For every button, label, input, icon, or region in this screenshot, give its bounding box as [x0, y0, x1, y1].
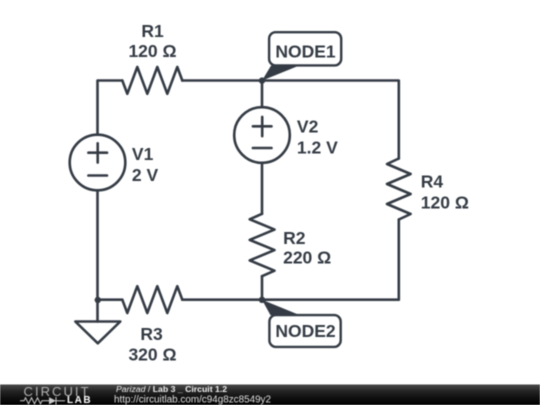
- NODE1 callout box: [269, 32, 341, 65]
- svg-text:120 Ω: 120 Ω: [128, 41, 176, 61]
- NODE2 callout pointer: [262, 300, 300, 315]
- svg-text:320 Ω: 320 Ω: [128, 345, 176, 365]
- svg-text:120 Ω: 120 Ω: [421, 193, 469, 213]
- ground junction dot: [95, 297, 101, 303]
- ground symbol stem: [96, 300, 99, 322]
- ground symbol triangle: [75, 322, 120, 344]
- wire: node A down to V2 plus terminal: [261, 81, 264, 108]
- wire: R1 right lead to node A (NODE1): [182, 79, 262, 82]
- wire: R2 bottom lead to node B: [261, 276, 264, 300]
- svg-text:R2: R2: [283, 228, 306, 248]
- svg-text:V2: V2: [297, 117, 319, 137]
- wire: V1 top to top-left corner to R1 left lead: [98, 81, 123, 135]
- wire: V2 minus terminal to R2 top lead: [261, 163, 264, 214]
- resistor R2 zigzag: [250, 214, 275, 276]
- V2 minus sign: [253, 147, 272, 150]
- svg-text:1.2 V: 1.2 V: [297, 138, 338, 158]
- NODE1 callout pointer: [262, 66, 299, 81]
- voltage source V1 circle: [70, 135, 126, 191]
- CircuitLab logo diode triangle: [49, 397, 56, 404]
- node A junction dot (NODE1): [259, 77, 265, 83]
- V1 minus sign: [88, 174, 107, 177]
- footer bar background: [0, 385, 540, 405]
- NODE2 callout box: [269, 315, 340, 347]
- svg-text:NODE1: NODE1: [275, 42, 336, 62]
- V2 plus sign: [253, 117, 272, 136]
- svg-text:Parizad / Lab 3 _ Circuit 1.2: Parizad / Lab 3 _ Circuit 1.2: [116, 384, 227, 394]
- resistor R3 zigzag: [122, 286, 182, 313]
- V1 plus sign: [88, 143, 107, 162]
- voltage source V2 circle: [234, 107, 290, 163]
- wire: R3 right lead to node B: [182, 298, 262, 301]
- wire: ground node to R3 left lead: [98, 298, 123, 301]
- svg-text:R1: R1: [141, 21, 164, 41]
- svg-text:220 Ω: 220 Ω: [283, 248, 331, 268]
- svg-text:R4: R4: [421, 172, 444, 192]
- wire: V1 minus terminal down to ground node: [96, 190, 99, 299]
- wire: node A to top-right corner down to R4 top lead: [262, 81, 399, 159]
- svg-text:NODE2: NODE2: [275, 321, 336, 341]
- wire: R4 bottom lead to bottom-right corner to node B (NODE2): [262, 220, 399, 300]
- resistor R1 zigzag: [122, 67, 182, 94]
- svg-text:R3: R3: [140, 324, 163, 344]
- resistor R4 zigzag: [387, 159, 411, 220]
- svg-text:LAB: LAB: [67, 395, 92, 405]
- node B junction dot (NODE2): [259, 297, 265, 303]
- CircuitLab logo resistor-diode squiggle: [20, 397, 65, 405]
- svg-text:2 V: 2 V: [132, 165, 159, 185]
- svg-text:http://circuitlab.com/c94g8zc8: http://circuitlab.com/c94g8zc8549y2: [114, 394, 271, 405]
- svg-text:V1: V1: [132, 144, 154, 164]
